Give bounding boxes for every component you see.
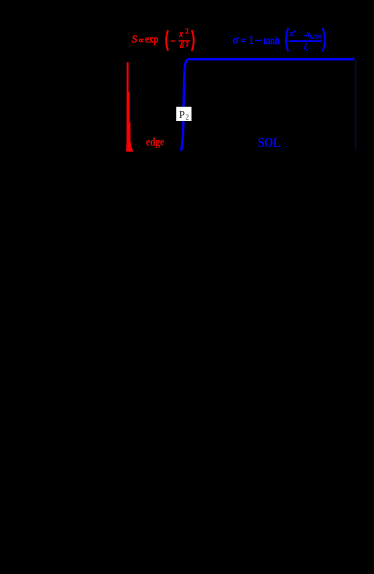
svg-text:1: 1 [248,33,254,47]
svg-text:∝: ∝ [138,35,144,45]
svg-text:x: x [178,29,183,39]
faint dark navy vertical line at x_LCFS [355,60,357,151]
svg-text:P: P [179,110,185,121]
svg-text:δ: δ [180,40,185,50]
white P2 marker box on blue curve [176,107,191,121]
svg-text:ξ: ξ [304,42,308,52]
red gaussian source curve (edge) [126,63,132,152]
blue tanh source curve (SOL) [181,59,354,151]
svg-text:2: 2 [186,114,190,121]
svg-text:S: S [132,34,138,46]
svg-text:tanh: tanh [263,36,280,47]
blue formula: sigma prop 1 - tanh((x'-x_LCFS)/xi) [233,28,325,52]
svg-text:exp: exp [145,35,158,46]
svg-text:2: 2 [185,29,189,36]
red formula: S prop exp(-x^2/delta^2) [132,29,194,51]
svg-text:edge: edge [146,137,164,149]
svg-text:2: 2 [186,41,189,48]
svg-text:SOL: SOL [258,136,281,151]
svg-text:∝: ∝ [240,35,246,45]
svg-text:σ: σ [233,33,240,47]
svg-text:LCFS: LCFS [310,35,322,40]
svg-text:x′: x′ [289,28,296,38]
